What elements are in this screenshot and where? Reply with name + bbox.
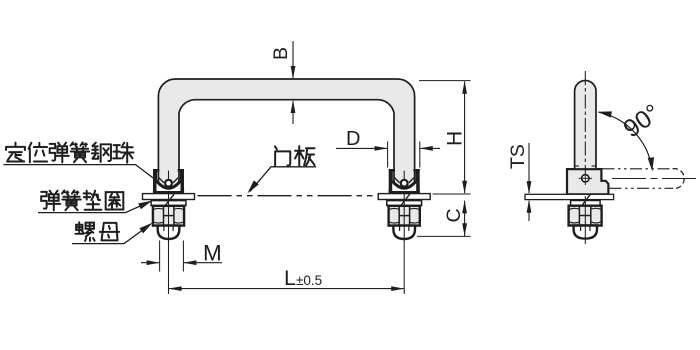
svg-text:B: B [270, 47, 292, 60]
svg-text:C: C [443, 208, 465, 222]
svg-text:H: H [444, 131, 467, 146]
svg-text:D: D [346, 128, 360, 150]
svg-text:M: M [203, 241, 222, 266]
svg-text:TS: TS [507, 144, 529, 169]
